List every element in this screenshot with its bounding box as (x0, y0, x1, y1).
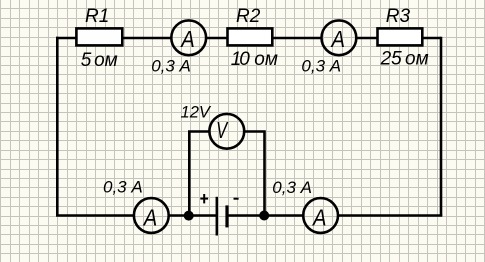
svg-text:R1: R1 (85, 6, 109, 27)
wire R3 to top-right corner (423, 37, 441, 40)
battery plus sign (200, 194, 208, 203)
resistor R2 (228, 28, 273, 45)
svg-text:A: A (311, 205, 326, 231)
node junction left of battery (184, 211, 194, 221)
svg-text:R2: R2 (236, 6, 261, 27)
wire top-left from left rail to R1 (56, 37, 77, 40)
node junction right of battery (259, 211, 269, 221)
battery negative short plate (225, 205, 228, 227)
svg-text:0,3 А: 0,3 А (301, 56, 341, 75)
svg-text:V: V (216, 117, 229, 143)
svg-text:0: 0 (239, 49, 250, 70)
ammeter A2 (322, 20, 357, 55)
wire A3 to battery positive plate (169, 214, 217, 217)
svg-text:A: A (180, 26, 195, 52)
svg-text:0,3 А: 0,3 А (272, 178, 312, 197)
wire left rail (56, 37, 59, 216)
svg-text:0,3 А: 0,3 А (151, 56, 191, 75)
svg-text:ом: ом (254, 49, 278, 70)
svg-text:A: A (330, 26, 345, 52)
wire A2 to R3 (357, 37, 378, 40)
svg-text:5: 5 (81, 50, 92, 71)
wire R2 to ammeter A2 (273, 37, 321, 40)
voltmeter V (209, 114, 244, 149)
svg-text:0,3 А: 0,3 А (103, 178, 143, 197)
svg-text:ом: ом (94, 50, 118, 71)
wire voltmeter left riser (189, 132, 209, 215)
wire R1 to ammeter A1 (123, 37, 171, 40)
battery positive long plate (216, 197, 219, 236)
svg-text:ом: ом (405, 49, 429, 70)
wire right rail (440, 37, 443, 216)
svg-text:25: 25 (380, 49, 403, 70)
ammeter A1 (171, 20, 206, 55)
wire voltmeter right riser (245, 132, 265, 215)
wire bottom-left to ammeter A3 (56, 214, 134, 217)
svg-text:12V: 12V (181, 103, 212, 122)
ammeter A3 (134, 198, 169, 233)
wire A4 to bottom-right corner (339, 214, 443, 217)
resistor R3 (378, 28, 423, 45)
wire A1 to R2 (207, 37, 228, 40)
wire battery negative plate to ammeter A4 (227, 214, 303, 217)
svg-text:R3: R3 (386, 6, 411, 27)
ammeter A4 (303, 198, 338, 233)
resistor R1 (76, 28, 122, 45)
battery minus sign (234, 198, 239, 200)
svg-text:A: A (142, 205, 157, 231)
